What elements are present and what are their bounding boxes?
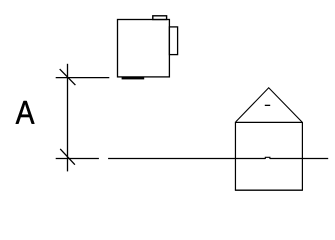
house roof triangle: [236, 88, 302, 122]
component box body: [118, 20, 170, 77]
component box thick bottom bar: [122, 78, 145, 80]
component box right tab: [169, 27, 177, 55]
top oblique tick: [60, 69, 76, 85]
dimension extension vertical line: [67, 64, 69, 172]
bottom dimension line segment 1: [56, 158, 99, 160]
component box top tab: [153, 16, 167, 20]
house bottom edge (thicker): [235, 189, 303, 191]
minus mark inside roof: [265, 105, 270, 106]
house body rectangle (left, top, right edges): [235, 122, 302, 190]
dimension label A: [16, 101, 35, 124]
top dimension extension horizontal line: [56, 77, 110, 79]
bottom dimension line segment 2 (right part): [270, 158, 328, 160]
bottom dimension line jog dash (center mark of house): [265, 157, 270, 159]
bottom oblique tick: [60, 149, 75, 165]
bottom dimension line segment 2 (left part): [108, 158, 265, 160]
